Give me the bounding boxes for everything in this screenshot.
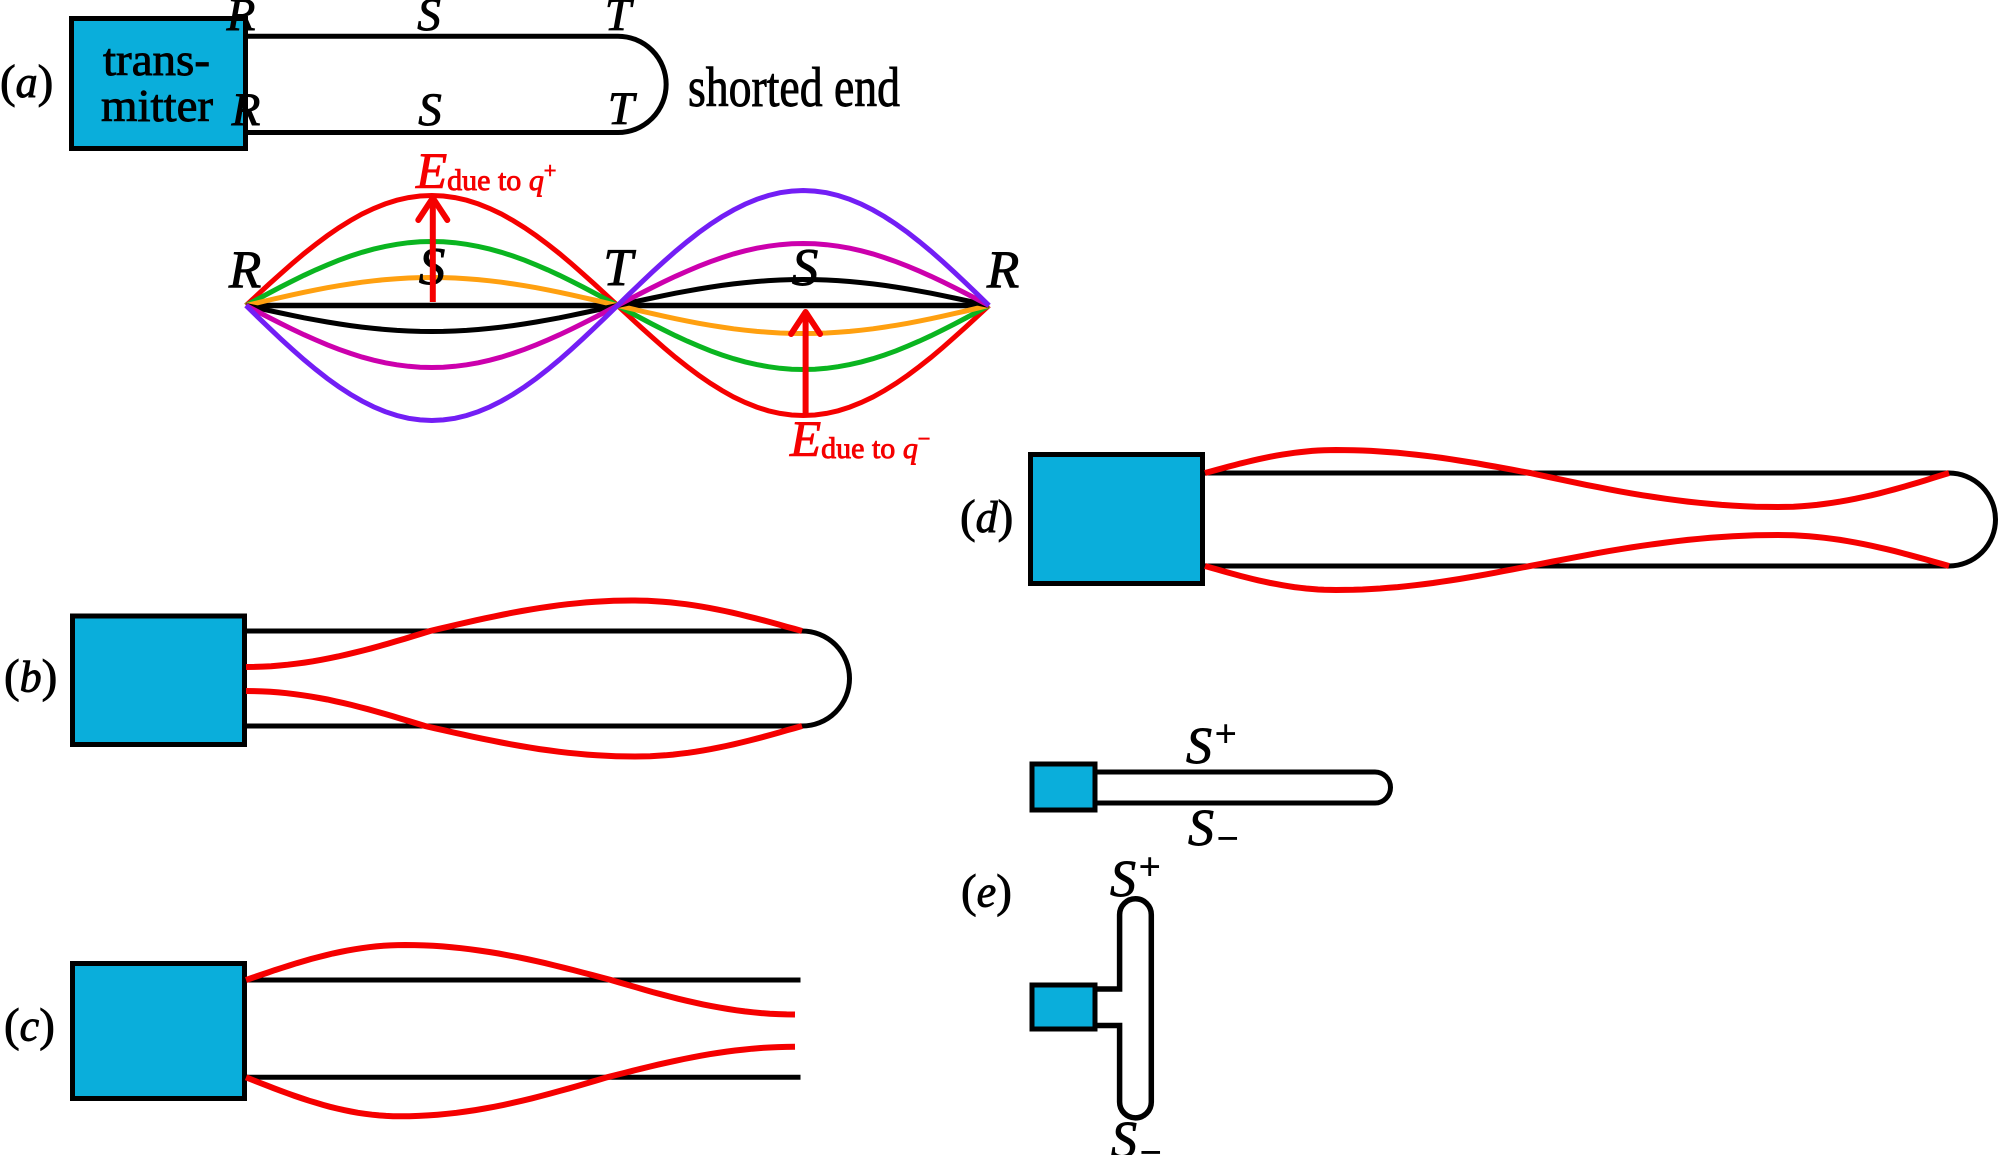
- svg-text:S: S: [417, 0, 441, 41]
- svg-text:mitter: mitter: [101, 80, 213, 131]
- transmitter box (a): [72, 19, 246, 149]
- svg-text:R: R: [226, 0, 256, 41]
- violet curve (snapshot 6): [246, 191, 989, 421]
- svg-text:shorted end: shorted end: [688, 57, 900, 119]
- wire bottom (b): [245, 724, 802, 729]
- stub wire top (e top): [1096, 770, 1375, 775]
- magenta curve (snapshot 5): [246, 244, 989, 368]
- folded dipole wire (e bottom): [1095, 899, 1151, 1118]
- svg-text:(e): (e): [961, 866, 1012, 918]
- E envelope lower (b): [246, 691, 802, 757]
- wire bottom (c): [245, 1075, 801, 1080]
- standing wave baseline: [246, 303, 989, 309]
- E envelope upper (c): [246, 945, 795, 1015]
- E envelope upper (d): [1205, 450, 1949, 507]
- wire top (c): [245, 978, 801, 983]
- arrow E due to q-: [803, 317, 809, 413]
- transmitter box (e top): [1032, 764, 1095, 810]
- svg-text:R: R: [986, 241, 1019, 299]
- svg-text:R: R: [231, 84, 261, 136]
- wire top (d): [1204, 471, 1949, 476]
- wire top (b): [245, 629, 802, 634]
- shorted end arc (a): [618, 36, 666, 132]
- wire bottom (d): [1204, 564, 1949, 569]
- black curve (snapshot 4): [246, 280, 989, 332]
- svg-text:T: T: [603, 239, 636, 297]
- transmitter box (d): [1031, 455, 1203, 584]
- wire top (a): [245, 34, 618, 39]
- svg-text:T: T: [605, 0, 634, 41]
- transmitter box (b): [73, 616, 245, 745]
- shorted end arc (b): [802, 631, 850, 726]
- svg-text:R: R: [228, 241, 261, 299]
- wire bottom (a): [245, 130, 618, 135]
- green curve (snapshot 2): [246, 242, 989, 370]
- E envelope lower (d): [1205, 535, 1949, 590]
- svg-text:(b): (b): [4, 651, 57, 703]
- stub shorted arc (e top): [1375, 772, 1390, 803]
- orange curve (snapshot 3): [246, 278, 989, 334]
- red curve (snapshot 1): [246, 196, 989, 416]
- svg-text:trans-: trans-: [103, 34, 210, 85]
- svg-text:(a): (a): [0, 56, 53, 108]
- stub wire bottom (e top): [1096, 801, 1375, 806]
- svg-text:T: T: [608, 83, 637, 135]
- svg-text:(d): (d): [960, 491, 1013, 543]
- E envelope upper (b): [246, 601, 802, 668]
- svg-text:S: S: [418, 84, 442, 136]
- svg-text:(c): (c): [4, 1000, 55, 1052]
- svg-text:S: S: [792, 239, 819, 297]
- transmitter box (c): [73, 964, 245, 1099]
- E envelope lower (c): [246, 1047, 795, 1117]
- shorted end arc (d): [1949, 473, 1996, 566]
- arrow E due to q+: [430, 203, 436, 302]
- transmitter box (e bottom): [1032, 985, 1095, 1029]
